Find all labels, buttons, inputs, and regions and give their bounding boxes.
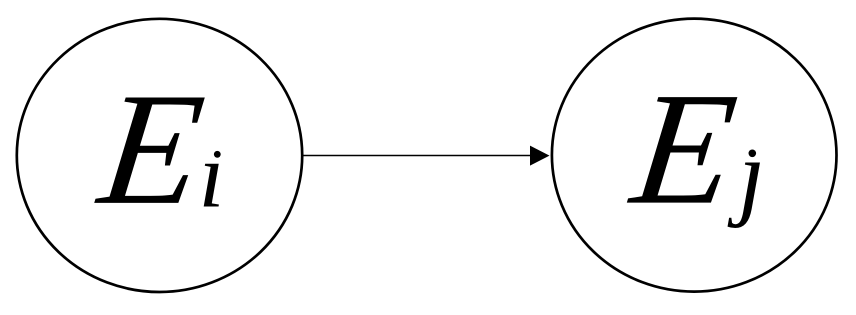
arrowhead — [530, 146, 550, 166]
wire arrow shaft — [303, 155, 532, 157]
node Ej circle — [552, 19, 837, 292]
label Ej — [622, 59, 765, 237]
node Ei circle — [17, 19, 302, 292]
svg-text:ı: ı — [199, 124, 225, 227]
label Ei — [90, 59, 225, 237]
svg-text:E: E — [622, 59, 744, 237]
svg-text:E: E — [90, 59, 212, 237]
